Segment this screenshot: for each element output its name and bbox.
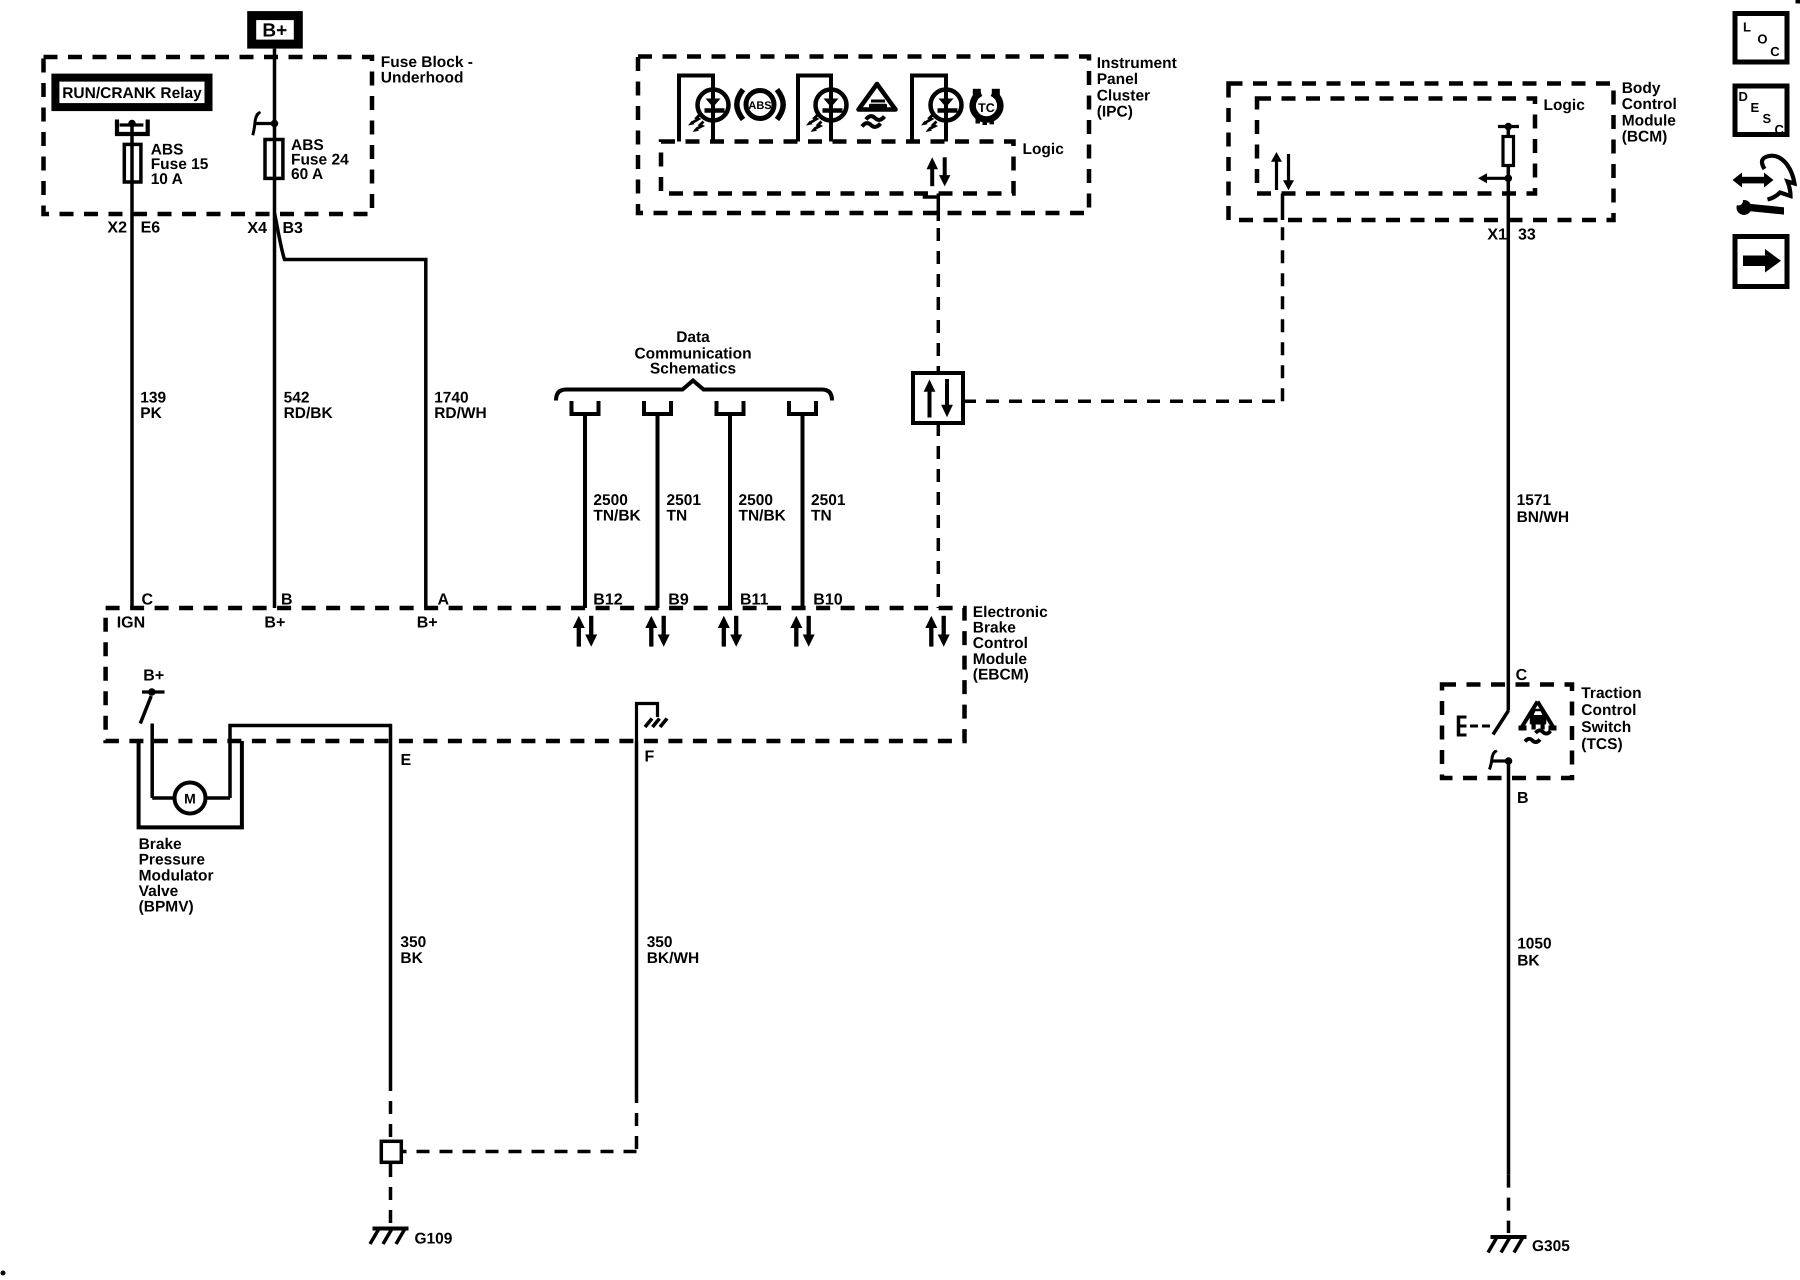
splice S xyxy=(381,1141,401,1162)
ABS warning icon xyxy=(737,90,783,120)
EBCM serial arrows gateway input xyxy=(925,616,949,647)
svg-text:B3: B3 xyxy=(283,220,304,237)
svg-text:Modulator: Modulator xyxy=(139,867,214,884)
ABS indicator LED xyxy=(688,90,729,133)
wire ckt 1571 from BCM X1-33 down to TCS pin C xyxy=(1507,178,1511,710)
EBCM serial arrows B10 xyxy=(790,616,814,647)
svg-text:Traction: Traction xyxy=(1581,685,1641,702)
TCS skid icon xyxy=(1519,702,1557,743)
EBCM module label xyxy=(973,604,1048,683)
svg-text:350: 350 xyxy=(400,934,426,951)
data wire 3 bracket xyxy=(717,401,744,414)
wire motor to pin E xyxy=(230,726,391,1079)
TC tire icon xyxy=(973,89,1001,125)
ground G305 xyxy=(1488,1237,1570,1255)
EBCM internal B+ supply and switch xyxy=(140,667,164,723)
TCS lower contact hook xyxy=(1490,751,1513,770)
BCM Logic dashed box xyxy=(1257,99,1535,194)
wire label 1740 RD/WH xyxy=(434,390,487,423)
svg-text:TC: TC xyxy=(978,101,995,115)
wire from B+ feed down through Fuse 24 to EBCM pin B (ckt 542) xyxy=(273,49,277,608)
connector X4 pin B3 label xyxy=(247,220,303,237)
wire label 139 PK xyxy=(140,390,166,423)
EBCM serial arrows B11 xyxy=(718,616,742,647)
svg-text:B10: B10 xyxy=(813,592,842,609)
BCM pull-up resistor xyxy=(1478,123,1519,184)
EBCM internal ground at pin F xyxy=(637,704,668,742)
EBCM serial arrows B9 xyxy=(645,616,669,647)
svg-text:B12: B12 xyxy=(593,592,622,609)
page corner mark top right xyxy=(1796,0,1800,4)
svg-text:X4: X4 xyxy=(247,220,267,237)
traction indicator LED xyxy=(806,90,847,133)
svg-text:PK: PK xyxy=(140,405,162,422)
svg-text:Module: Module xyxy=(1622,112,1677,129)
BPMV label xyxy=(139,836,214,915)
wire label 2500 TN/BK (2) xyxy=(739,492,787,524)
IPC serial data arrows xyxy=(927,157,951,186)
svg-text:E: E xyxy=(401,752,412,769)
svg-text:Control: Control xyxy=(1622,96,1677,113)
Data Communication Schematics label xyxy=(634,329,751,377)
svg-text:33: 33 xyxy=(1518,227,1536,244)
Fuse Block - Underhood dashed box xyxy=(44,57,373,214)
svg-text:542: 542 xyxy=(284,390,310,407)
RUN/CRANK Relay box xyxy=(55,78,208,108)
EBCM serial arrows B12 xyxy=(573,616,597,647)
svg-text:(BCM): (BCM) xyxy=(1622,129,1668,146)
svg-text:Cluster: Cluster xyxy=(1097,87,1150,104)
wire ckt 1050 from TCS pin B down xyxy=(1507,761,1511,1175)
svg-text:D: D xyxy=(1739,89,1748,104)
adjust/wrench legend icon xyxy=(1733,156,1795,215)
TCS module label xyxy=(1581,685,1641,753)
svg-text:TN/BK: TN/BK xyxy=(593,507,641,524)
svg-text:(IPC): (IPC) xyxy=(1097,104,1133,121)
connector X1 pin 33 label xyxy=(1487,227,1535,244)
svg-text:Data: Data xyxy=(676,329,710,346)
vehicle skid warning icon xyxy=(859,84,896,127)
svg-text:ABS: ABS xyxy=(748,100,771,112)
fuse F24 ABS 60A xyxy=(265,137,349,183)
data wire 4 (ckt 2501) xyxy=(801,414,805,608)
TCS momentary actuator symbol xyxy=(1459,716,1491,737)
svg-text:(EBCM): (EBCM) xyxy=(973,666,1029,683)
svg-text:B+: B+ xyxy=(262,21,287,42)
svg-text:Control: Control xyxy=(1581,702,1636,719)
wire label 2500 TN/BK (1) xyxy=(593,492,641,524)
svg-text:A: A xyxy=(438,592,450,609)
svg-text:Logic: Logic xyxy=(1023,141,1065,158)
dashed wire to G305 xyxy=(1507,1175,1511,1233)
svg-text:C: C xyxy=(1775,122,1785,137)
BPMV pump motor M xyxy=(152,783,230,814)
svg-text:F: F xyxy=(645,749,655,766)
wire ckt 139 from relay through Fuse 15 down to EBCM pin C xyxy=(130,124,134,608)
BCM module label xyxy=(1622,80,1677,146)
svg-text:M: M xyxy=(184,791,196,807)
svg-text:(BPMV): (BPMV) xyxy=(139,899,194,916)
data wire 3 (ckt 2500) xyxy=(728,414,732,608)
dashed wire 350 BK/WH to splice xyxy=(403,1090,637,1152)
svg-text:1050: 1050 xyxy=(1517,936,1551,953)
dashed serial data wire gateway to EBCM xyxy=(937,423,941,608)
connector X2 pin E6 label xyxy=(107,220,160,237)
wire label 542 RD/BK xyxy=(284,390,334,423)
wire label 350 BK xyxy=(400,934,426,967)
data wire 1 (ckt 2500) xyxy=(583,414,587,608)
svg-text:Module: Module xyxy=(973,651,1028,668)
svg-text:Control: Control xyxy=(973,635,1028,652)
Electronic Brake Control Module dashed box xyxy=(106,608,965,741)
relay output connector bracket xyxy=(117,120,148,135)
svg-text:Instrument: Instrument xyxy=(1097,55,1177,72)
wire label 1571 BN/WH xyxy=(1517,492,1570,526)
wire label 2501 TN (1) xyxy=(667,492,702,524)
fuse F15 ABS 10A xyxy=(124,141,209,187)
wire label 2501 TN (2) xyxy=(811,492,846,524)
svg-text:Body: Body xyxy=(1622,80,1661,97)
svg-text:350: 350 xyxy=(647,934,673,951)
dashed serial data wire IPC to gateway xyxy=(937,228,941,373)
svg-text:139: 139 xyxy=(140,390,166,407)
next-page arrow legend box xyxy=(1735,237,1787,287)
fuse F24 feed tap curl symbol xyxy=(253,112,279,135)
Body Control Module dashed box xyxy=(1229,84,1614,221)
TCS switch blade xyxy=(1493,711,1509,735)
svg-text:(TCS): (TCS) xyxy=(1581,736,1622,753)
dashed serial data wire gateway to BCM xyxy=(963,220,1283,401)
svg-text:Underhood: Underhood xyxy=(381,69,464,86)
BCM serial data exit wire xyxy=(1281,194,1285,221)
BCM serial data arrows xyxy=(1271,152,1294,190)
svg-text:1571: 1571 xyxy=(1517,492,1552,509)
svg-text:B9: B9 xyxy=(668,592,689,609)
data wire 1 bracket xyxy=(572,401,599,414)
TC indicator LED xyxy=(921,90,962,133)
svg-text:Pressure: Pressure xyxy=(139,852,206,869)
svg-text:G109: G109 xyxy=(415,1231,453,1248)
svg-text:X2: X2 xyxy=(107,220,127,237)
LOC legend box xyxy=(1735,14,1787,63)
svg-text:S: S xyxy=(1763,111,1772,126)
svg-text:Fuse Block -: Fuse Block - xyxy=(381,54,473,71)
svg-text:B+: B+ xyxy=(417,615,438,632)
svg-text:RUN/CRANK Relay: RUN/CRANK Relay xyxy=(62,85,202,102)
IPC serial data exit wire with pin tick xyxy=(923,194,939,222)
svg-text:TN/BK: TN/BK xyxy=(739,507,787,524)
svg-text:C: C xyxy=(1770,44,1780,59)
svg-text:BK: BK xyxy=(1517,952,1540,969)
ABS indicator LED bracket wire xyxy=(679,76,713,142)
data wire 2 (ckt 2501) xyxy=(656,414,660,608)
svg-text:Electronic: Electronic xyxy=(973,604,1048,621)
wire label 350 BK/WH xyxy=(647,934,700,967)
wire ckt 350 BK/WH from pin F xyxy=(635,741,639,1090)
svg-text:B+: B+ xyxy=(264,615,285,632)
IPC Logic dashed box xyxy=(661,142,1014,194)
svg-text:G305: G305 xyxy=(1532,1238,1570,1255)
svg-text:Logic: Logic xyxy=(1544,97,1586,114)
BPMV housing xyxy=(139,741,242,827)
page corner mark xyxy=(1,1271,6,1276)
svg-text:BN/WH: BN/WH xyxy=(1517,509,1570,526)
wire from switch to pump motor xyxy=(150,724,154,799)
svg-text:E: E xyxy=(1751,100,1760,115)
traction indicator LED bracket wire xyxy=(798,76,831,142)
IPC module label xyxy=(1097,55,1177,121)
svg-text:B+: B+ xyxy=(143,667,164,684)
svg-text:TN: TN xyxy=(811,507,832,524)
svg-text:C: C xyxy=(1516,667,1528,684)
DESC legend box xyxy=(1735,86,1787,137)
dashed wire 350 BK to splice xyxy=(389,1078,393,1140)
svg-text:Valve: Valve xyxy=(139,883,179,900)
serial data gateway box xyxy=(913,373,963,423)
svg-text:X1: X1 xyxy=(1487,227,1507,244)
Data Communication Schematics curly brace xyxy=(556,381,832,401)
svg-text:BK: BK xyxy=(400,950,423,967)
TC indicator LED bracket wire xyxy=(912,76,946,142)
wire branch ckt 1740 to EBCM pin A xyxy=(275,213,426,608)
svg-text:Brake: Brake xyxy=(139,836,182,853)
svg-text:E6: E6 xyxy=(141,220,161,237)
ground G109 xyxy=(370,1229,453,1248)
Fuse Block - Underhood label xyxy=(381,54,473,87)
svg-text:IGN: IGN xyxy=(117,615,145,632)
svg-text:RD/BK: RD/BK xyxy=(284,405,334,422)
svg-text:BK/WH: BK/WH xyxy=(647,950,700,967)
svg-text:TN: TN xyxy=(667,507,688,524)
Traction Control Switch dashed box xyxy=(1442,685,1572,779)
svg-text:Schematics: Schematics xyxy=(650,360,736,377)
svg-text:10 A: 10 A xyxy=(151,171,183,188)
data wire 4 bracket xyxy=(789,401,816,414)
svg-text:B: B xyxy=(1517,790,1529,807)
svg-text:1740: 1740 xyxy=(434,390,468,407)
svg-text:Switch: Switch xyxy=(1581,719,1631,736)
svg-text:60 A: 60 A xyxy=(291,166,323,183)
power feed B+ terminal box xyxy=(252,16,299,44)
Instrument Panel Cluster dashed box xyxy=(638,57,1089,214)
svg-text:O: O xyxy=(1757,31,1767,46)
svg-text:B11: B11 xyxy=(740,592,769,609)
svg-text:Panel: Panel xyxy=(1097,71,1138,88)
svg-text:L: L xyxy=(1743,20,1751,35)
svg-text:RD/WH: RD/WH xyxy=(434,405,487,422)
dashed wire splice to G109 xyxy=(389,1164,393,1225)
svg-text:Brake: Brake xyxy=(973,620,1016,637)
wire label 1050 BK xyxy=(1517,936,1551,970)
data wire 2 bracket xyxy=(644,401,671,414)
